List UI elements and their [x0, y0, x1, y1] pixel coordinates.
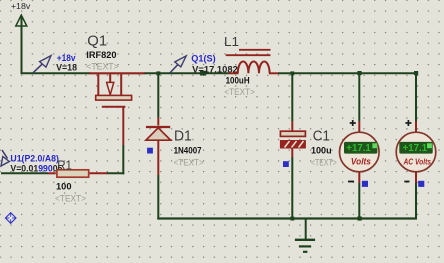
wire bottom rail: [157, 217, 417, 219]
node C1 bottom junction: [290, 217, 294, 221]
node VM1 top junction: [357, 71, 361, 75]
svg-text:IRF820: IRF820: [86, 50, 116, 61]
wire C1 top vertical: [291, 74, 293, 131]
svg-text:100uH: 100uH: [226, 75, 250, 86]
origin marker: [5, 212, 16, 223]
svg-text:<TEXT>: <TEXT>: [86, 61, 118, 71]
wire C1 bottom vertical: [291, 148, 293, 220]
svg-text:Volts: Volts: [351, 157, 371, 167]
svg-text:L1: L1: [224, 34, 239, 49]
wire power shaft: [21, 17, 23, 74]
wire top rail right (L1 to voltmeters): [278, 72, 417, 74]
svg-text:D1: D1: [174, 129, 192, 145]
node C1 top junction: [290, 71, 294, 75]
power +18v label: [11, 2, 31, 11]
wire Q1 gate down: [106, 107, 124, 175]
svg-text:AC Volts: AC Volts: [403, 157, 432, 167]
capacitor C1 (polarized 100u): [280, 129, 336, 168]
svg-text:<TEXT>: <TEXT>: [174, 157, 204, 167]
svg-text:+17.1: +17.1: [346, 143, 371, 154]
wire D1 bottom vertical: [157, 140, 159, 219]
svg-text:100: 100: [56, 182, 72, 193]
svg-text:V=0.0199005: V=0.0199005: [10, 164, 63, 175]
transistor Q1 (IRF820 MOSFET): [86, 33, 145, 107]
wire D1 top vertical: [157, 74, 159, 126]
svg-text:R1: R1: [57, 157, 72, 172]
svg-text:1N4007: 1N4007: [174, 146, 202, 157]
svg-text:+18v: +18v: [11, 2, 31, 11]
blue marker VM1: [362, 181, 368, 187]
wire R1 left lead: [1, 172, 56, 174]
blue marker D1: [147, 148, 153, 154]
wire top rail mid (Q1 source to L1): [145, 72, 230, 74]
probe U1(P2.0/A8): [1, 150, 63, 175]
inductor L1: [224, 34, 279, 97]
voltmeter VM2 (AC Volts): [396, 120, 436, 182]
wire VM1 vertical top: [358, 74, 360, 132]
svg-text:Q1: Q1: [87, 33, 107, 49]
node probe Q1(S) connection: [200, 71, 206, 76]
wire top rail left (power to Q1 drain): [21, 72, 91, 74]
svg-text:<TEXT>: <TEXT>: [224, 87, 255, 97]
power arrow symbol: [16, 15, 27, 26]
svg-text:<TEXT>: <TEXT>: [311, 158, 337, 168]
svg-text:<TEXT>: <TEXT>: [55, 193, 86, 203]
svg-text:C1: C1: [313, 129, 330, 145]
svg-text:V=18: V=18: [56, 62, 77, 73]
probe +18v: [33, 53, 78, 73]
node VM2 top junction: [414, 71, 418, 75]
resistor R1: [55, 157, 107, 203]
blue marker VM2: [418, 181, 424, 187]
voltmeter VM1 (Volts): [340, 120, 380, 182]
node VM1 bottom junction: [358, 216, 362, 220]
blue marker C1: [283, 161, 289, 167]
node D1 top junction: [156, 71, 160, 75]
svg-text:Q1(S): Q1(S): [191, 53, 215, 64]
diode D1 (1N4007): [146, 127, 204, 167]
svg-text:100u: 100u: [311, 145, 332, 156]
probe Q1(S): [170, 53, 238, 75]
wire VM1 vertical bottom: [358, 172, 360, 220]
wire VM2 vertical bottom: [415, 172, 417, 220]
wire VM2 vertical top: [415, 74, 417, 132]
svg-text:+17.1: +17.1: [403, 143, 428, 154]
ground: [295, 220, 315, 252]
